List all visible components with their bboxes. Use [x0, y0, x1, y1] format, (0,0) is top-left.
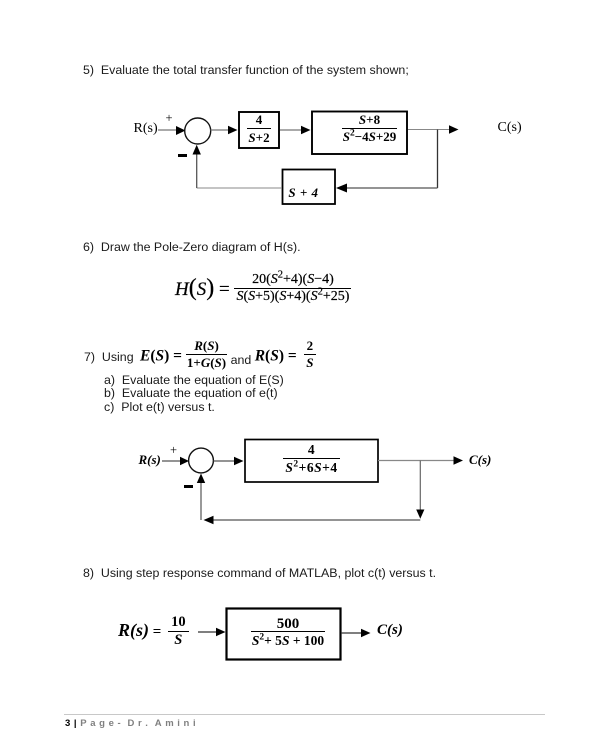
wire R(s) to summing junction P7 [162, 457, 189, 465]
problem 7 statement [84, 350, 134, 364]
wire block to output C(s) [378, 456, 463, 464]
wire block to C(s) [341, 629, 371, 637]
node label R(s) P5 [134, 121, 158, 137]
wire feedback riser to junction P7 [197, 474, 205, 521]
footer rule [64, 714, 545, 715]
takeoff node P5 [437, 130, 439, 189]
block H S+4 [283, 170, 336, 205]
node label C(s) P8 [377, 622, 403, 639]
value label 500/(S2+5S+100) [231, 616, 345, 648]
block G1 4/(S+2) [239, 112, 279, 148]
problem 8 statement [83, 566, 436, 580]
block G2 (S+8)/(S^2-4S+29) [312, 112, 407, 155]
footer text [65, 718, 196, 729]
wire junction to block G [214, 457, 244, 465]
value label S+4 [277, 185, 330, 201]
problem 5 statement [83, 63, 409, 77]
equation H(S) [175, 275, 351, 307]
node label R(s) P7 [139, 452, 161, 468]
plus sign P5 [166, 111, 173, 126]
minus sign P5 [178, 154, 187, 157]
equation E(S) [140, 342, 316, 372]
node label C(s) P7 [469, 452, 491, 468]
wire G1 to G2 [280, 126, 311, 134]
wire G2 to output C(s) [408, 125, 459, 133]
block 500/(S^2+5S+100) [227, 609, 341, 660]
value label 4/(S+2) [239, 113, 279, 144]
value label (S+8)/(S2-4S+29) [322, 113, 417, 143]
wire junction to block G1 [211, 126, 238, 134]
item a [104, 373, 284, 387]
wire R(s)=10/S to block [198, 628, 226, 636]
wire feedback bottom run [204, 516, 421, 524]
wire H block back to junction riser [197, 187, 282, 189]
wire takeoff down to H block [336, 184, 438, 193]
item c [104, 400, 215, 414]
minus sign P7 [184, 485, 193, 488]
takeoff node P7 [416, 461, 424, 519]
value label 4/(S2+6S+4) [245, 443, 378, 474]
node label C(s) P5 [498, 120, 522, 136]
block G 4/(S^2+6S+4) [245, 440, 378, 483]
summing junction P7 [189, 448, 214, 473]
equation R(s)=10/S [118, 616, 189, 649]
summing junction P5 [185, 118, 211, 144]
plus sign P7 [170, 443, 177, 458]
item b [104, 386, 278, 400]
wire feedback riser up to junction [193, 145, 201, 188]
problem 6 statement [83, 240, 301, 254]
wire R(s) to summing junction [158, 126, 186, 135]
